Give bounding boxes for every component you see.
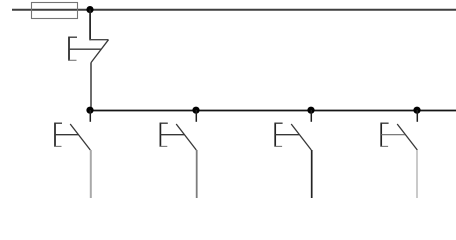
node junction dot D <box>413 107 420 114</box>
transistor Q4 channel diagonal <box>291 124 311 150</box>
node junction dot B <box>192 107 199 114</box>
transistor Q2 gate bracket <box>54 123 62 147</box>
transistor Q3 source lead <box>196 150 198 198</box>
transistor Q2 base line <box>55 134 78 136</box>
wire second rail <box>90 110 456 112</box>
node junction dot C <box>307 107 314 114</box>
transistor Q4 base line <box>275 134 299 136</box>
transistor Q1 channel diagonal <box>91 40 109 63</box>
transistor Q5 base line <box>381 134 405 136</box>
transistor Q3 gate bracket <box>160 123 168 147</box>
transistor Q2 source lead <box>90 150 92 198</box>
transistor Q5 source lead <box>416 150 418 198</box>
transistor Q2 channel diagonal <box>70 124 90 150</box>
transistor Q4 gate bracket <box>275 123 283 147</box>
fuse F1 <box>32 3 78 19</box>
node junction dot top rail <box>86 6 93 13</box>
transistor Q1 collector lead <box>89 10 108 41</box>
transistor Q4 source lead <box>311 150 313 198</box>
transistor Q2 drain lead <box>89 110 91 122</box>
transistor Q1 emitter lead <box>90 63 92 110</box>
transistor Q4 drain lead <box>310 110 312 122</box>
transistor Q3 base line <box>160 134 184 136</box>
transistor Q3 drain lead <box>195 110 197 122</box>
wire top supply rail <box>12 9 456 11</box>
node junction dot A <box>86 107 93 114</box>
transistor Q5 gate bracket <box>381 123 389 147</box>
transistor Q5 channel diagonal <box>397 124 417 150</box>
transistor Q1 base line <box>69 48 101 50</box>
transistor Q3 channel diagonal <box>176 124 196 150</box>
transistor Q5 drain lead <box>416 110 418 122</box>
transistor Q1 gate bracket <box>68 37 77 61</box>
